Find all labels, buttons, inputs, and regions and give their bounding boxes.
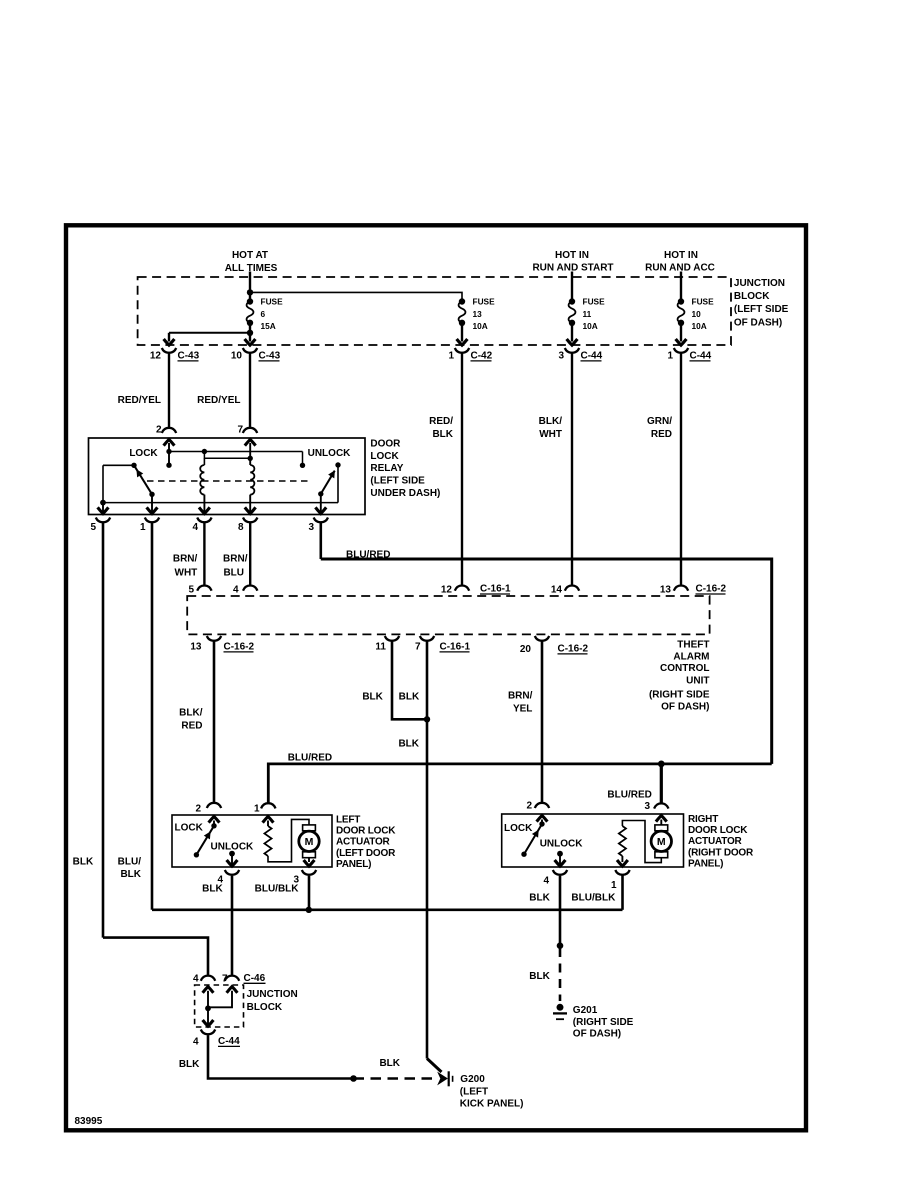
svg-text:10A: 10A [473, 321, 488, 331]
svg-text:LOCK: LOCK [504, 823, 533, 834]
svg-text:12: 12 [441, 585, 453, 596]
svg-text:10: 10 [692, 309, 702, 319]
svg-text:BRN/: BRN/ [508, 691, 533, 702]
svg-text:THEFT: THEFT [677, 640, 709, 651]
svg-text:FUSE: FUSE [261, 297, 284, 307]
svg-text:BLU/RED: BLU/RED [607, 790, 651, 801]
svg-text:C-44: C-44 [581, 351, 603, 362]
svg-text:BLK/: BLK/ [179, 708, 203, 719]
svg-text:1: 1 [611, 880, 617, 891]
svg-text:6: 6 [261, 309, 266, 319]
svg-text:YEL: YEL [513, 704, 532, 715]
svg-text:BLU/RED: BLU/RED [288, 753, 332, 764]
svg-text:OF DASH): OF DASH) [734, 317, 782, 328]
svg-text:CONTROL: CONTROL [660, 663, 709, 674]
svg-text:UNIT: UNIT [686, 676, 709, 687]
svg-text:BLOCK: BLOCK [247, 1002, 283, 1013]
svg-text:BLU/BLK: BLU/BLK [255, 884, 300, 895]
svg-text:BLK: BLK [120, 869, 141, 880]
svg-text:(LEFT SIDE: (LEFT SIDE [370, 475, 425, 486]
svg-text:RED: RED [181, 721, 202, 732]
svg-text:UNLOCK: UNLOCK [308, 448, 352, 459]
svg-text:FUSE: FUSE [473, 297, 496, 307]
svg-text:14: 14 [551, 585, 563, 596]
svg-text:C-16-2: C-16-2 [558, 644, 589, 655]
svg-text:HOT AT: HOT AT [232, 250, 268, 261]
svg-text:C-42: C-42 [471, 351, 493, 362]
svg-text:WHT: WHT [175, 568, 198, 579]
svg-text:RIGHT: RIGHT [688, 814, 718, 825]
svg-text:13: 13 [660, 585, 672, 596]
svg-text:C-16-1: C-16-1 [480, 584, 511, 595]
svg-text:BLK: BLK [362, 692, 383, 703]
svg-text:7: 7 [415, 642, 421, 653]
svg-text:BLK: BLK [379, 1058, 400, 1069]
svg-text:4: 4 [192, 522, 198, 533]
svg-text:C-46: C-46 [244, 973, 266, 984]
svg-text:UNLOCK: UNLOCK [540, 839, 584, 850]
svg-text:1: 1 [254, 804, 260, 815]
svg-text:10A: 10A [692, 321, 707, 331]
svg-text:RED/YEL: RED/YEL [118, 395, 161, 406]
svg-text:2: 2 [526, 801, 532, 812]
svg-text:C-16-1: C-16-1 [440, 642, 471, 653]
svg-text:7: 7 [222, 974, 228, 985]
svg-text:4: 4 [233, 585, 239, 596]
svg-text:3: 3 [308, 522, 314, 533]
svg-text:BLU: BLU [223, 568, 244, 579]
svg-text:10A: 10A [583, 321, 598, 331]
svg-text:8: 8 [238, 522, 244, 533]
svg-text:PANEL): PANEL) [688, 859, 723, 870]
svg-text:G201: G201 [573, 1005, 598, 1016]
svg-text:RED/YEL: RED/YEL [197, 395, 240, 406]
svg-text:ACTUATOR: ACTUATOR [336, 837, 391, 848]
svg-text:LEFT: LEFT [336, 814, 360, 825]
svg-text:BLK/: BLK/ [539, 416, 563, 427]
svg-text:PANEL): PANEL) [336, 859, 371, 870]
svg-text:(LEFT SIDE: (LEFT SIDE [734, 304, 789, 315]
svg-text:1: 1 [667, 351, 673, 362]
svg-text:BLU/: BLU/ [118, 857, 142, 868]
svg-text:C-44: C-44 [218, 1036, 240, 1047]
svg-text:JUNCTION: JUNCTION [247, 989, 298, 1000]
svg-text:5: 5 [188, 585, 194, 596]
svg-text:BLOCK: BLOCK [734, 291, 770, 302]
svg-text:(RIGHT SIDE: (RIGHT SIDE [573, 1017, 634, 1028]
svg-text:RED/: RED/ [429, 416, 453, 427]
svg-text:15A: 15A [261, 321, 276, 331]
svg-text:HOT IN: HOT IN [555, 250, 589, 261]
svg-text:BLK: BLK [399, 692, 420, 703]
svg-text:C-16-2: C-16-2 [224, 642, 255, 653]
svg-text:UNDER DASH): UNDER DASH) [370, 488, 440, 499]
svg-text:10: 10 [231, 351, 243, 362]
svg-text:BLK: BLK [202, 884, 223, 895]
svg-text:BLU/BLK: BLU/BLK [571, 892, 616, 903]
svg-text:(RIGHT DOOR: (RIGHT DOOR [688, 847, 754, 858]
svg-text:GRN/: GRN/ [647, 416, 672, 427]
svg-text:12: 12 [150, 351, 162, 362]
svg-text:BLK: BLK [179, 1059, 200, 1070]
svg-text:BLK: BLK [529, 893, 550, 904]
svg-text:C-43: C-43 [259, 351, 281, 362]
svg-text:BLK: BLK [73, 857, 94, 868]
svg-text:WHT: WHT [539, 429, 562, 440]
svg-text:11: 11 [375, 642, 386, 653]
svg-text:(LEFT DOOR: (LEFT DOOR [336, 848, 396, 859]
svg-text:OF DASH): OF DASH) [573, 1029, 621, 1040]
svg-text:LOCK: LOCK [129, 448, 158, 459]
svg-text:ALARM: ALARM [673, 651, 709, 662]
svg-text:13: 13 [190, 642, 202, 653]
svg-text:3: 3 [558, 351, 564, 362]
svg-text:C-16-2: C-16-2 [696, 584, 727, 595]
svg-text:7: 7 [237, 425, 243, 436]
svg-text:4: 4 [193, 1037, 199, 1048]
svg-text:3: 3 [644, 801, 650, 812]
svg-text:G200: G200 [460, 1074, 485, 1085]
svg-text:BLK: BLK [398, 739, 419, 750]
svg-text:FUSE: FUSE [583, 297, 606, 307]
svg-text:20: 20 [520, 644, 532, 655]
svg-text:DOOR: DOOR [370, 439, 401, 450]
svg-text:LOCK: LOCK [370, 451, 399, 462]
svg-text:1: 1 [448, 351, 454, 362]
svg-text:4: 4 [193, 974, 199, 985]
svg-text:(RIGHT SIDE: (RIGHT SIDE [649, 689, 710, 700]
svg-text:BRN/: BRN/ [223, 554, 248, 565]
svg-text:LOCK: LOCK [175, 823, 204, 834]
svg-text:1: 1 [140, 522, 146, 533]
svg-text:2: 2 [156, 425, 162, 436]
svg-text:ACTUATOR: ACTUATOR [688, 836, 743, 847]
svg-text:BLK: BLK [432, 429, 453, 440]
svg-text:BLU/RED: BLU/RED [346, 550, 390, 561]
svg-text:DOOR LOCK: DOOR LOCK [688, 825, 748, 836]
svg-text:RELAY: RELAY [370, 463, 403, 474]
svg-text:BRN/: BRN/ [173, 554, 198, 565]
svg-text:C-43: C-43 [178, 351, 200, 362]
svg-text:13: 13 [473, 309, 483, 319]
svg-text:JUNCTION: JUNCTION [734, 278, 785, 289]
svg-text:11: 11 [583, 309, 592, 319]
svg-text:C-44: C-44 [690, 351, 712, 362]
svg-text:DOOR LOCK: DOOR LOCK [336, 825, 396, 836]
svg-text:83995: 83995 [75, 1116, 103, 1127]
svg-text:KICK PANEL): KICK PANEL) [460, 1099, 524, 1110]
svg-text:OF DASH): OF DASH) [661, 702, 709, 713]
svg-text:4: 4 [543, 876, 549, 887]
svg-text:BLK: BLK [529, 971, 550, 982]
svg-text:UNLOCK: UNLOCK [211, 841, 255, 852]
svg-text:M: M [305, 836, 314, 848]
svg-text:RED: RED [651, 429, 672, 440]
svg-text:5: 5 [90, 522, 96, 533]
svg-text:(LEFT: (LEFT [460, 1086, 488, 1097]
svg-text:M: M [657, 836, 666, 848]
svg-text:HOT IN: HOT IN [664, 250, 698, 261]
svg-text:2: 2 [195, 804, 201, 815]
svg-text:FUSE: FUSE [692, 297, 715, 307]
